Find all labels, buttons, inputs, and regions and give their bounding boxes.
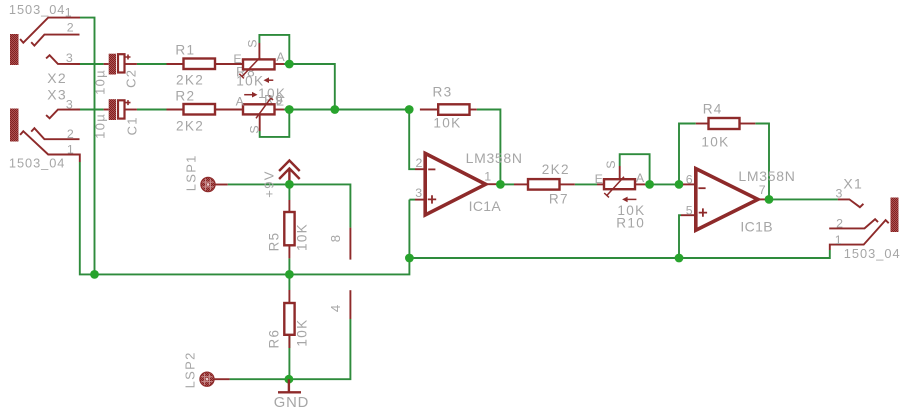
node junction pot R8 output <box>285 60 294 69</box>
svg-text:R2: R2 <box>175 89 195 104</box>
svg-text:1503_04: 1503_04 <box>9 156 65 171</box>
node junction GND <box>285 375 294 384</box>
potentiometer R10 <box>597 183 604 185</box>
wire GND net <box>230 319 351 379</box>
connector X3 jack body <box>10 109 19 142</box>
svg-text:1503_04: 1503_04 <box>9 2 65 17</box>
connector X1 pin 1 <box>830 220 889 250</box>
svg-text:10K: 10K <box>294 319 309 347</box>
svg-text:10µ: 10µ <box>92 113 107 139</box>
svg-text:2K2: 2K2 <box>542 162 570 177</box>
svg-text:2: 2 <box>67 127 75 141</box>
svg-text:LSP1: LSP1 <box>183 154 198 191</box>
potentiometer R8 <box>258 43 260 59</box>
svg-text:5: 5 <box>686 203 694 217</box>
label R10 arrow <box>625 198 636 200</box>
wire net bias rail (X2.1 vertical) <box>80 18 95 275</box>
node junction divider midpoint <box>285 270 294 279</box>
svg-text:S: S <box>245 38 259 48</box>
solder pad LSP1 <box>201 177 215 191</box>
supply symbol +9V arrow <box>279 161 300 185</box>
wire row B input net <box>80 109 104 111</box>
svg-text:IC1A: IC1A <box>469 198 502 214</box>
wire IC1B pin5 to rail <box>679 215 681 258</box>
wire R3 feedback right <box>477 110 501 185</box>
wire pot R9 S loop <box>260 110 290 137</box>
svg-text:2K2: 2K2 <box>176 73 204 88</box>
svg-text:2: 2 <box>836 216 844 230</box>
svg-text:6: 6 <box>686 172 694 186</box>
svg-text:E: E <box>233 52 243 66</box>
svg-text:2K2: 2K2 <box>176 119 204 134</box>
svg-text:10K: 10K <box>433 116 461 131</box>
node junction R10 A/S <box>645 180 654 189</box>
resistor R1 <box>167 63 184 65</box>
svg-text:A: A <box>276 50 286 64</box>
op-amp IC1B <box>683 183 696 185</box>
svg-text:E: E <box>595 172 605 186</box>
svg-text:10K: 10K <box>701 135 729 150</box>
wire +9V supply net <box>228 184 351 227</box>
svg-text:3: 3 <box>66 98 74 112</box>
connector X1 pin 3 <box>838 199 864 207</box>
op-amp IC1A <box>409 199 415 201</box>
connector X1 jack body <box>891 198 899 233</box>
resistor R5 <box>288 200 290 212</box>
wire IC1A output net <box>500 183 514 185</box>
connector X1 pin 2 <box>829 219 878 228</box>
svg-text:3: 3 <box>415 186 423 200</box>
svg-text:LM358N: LM358N <box>738 168 795 184</box>
svg-text:S: S <box>604 159 618 169</box>
node junction IC1A noninverting <box>405 254 414 263</box>
svg-text:4: 4 <box>328 303 343 312</box>
connector X2 jack body <box>10 34 19 65</box>
svg-text:C2: C2 <box>124 69 139 88</box>
IC1 power pin 4 <box>349 290 351 319</box>
connector X2 pin 2 <box>31 35 79 46</box>
capacitor C2 <box>109 54 116 75</box>
connector X3 pin 2 <box>31 128 79 139</box>
svg-text:3: 3 <box>66 51 74 65</box>
svg-text:R4: R4 <box>703 102 723 117</box>
svg-text:IC1B: IC1B <box>740 218 773 234</box>
svg-text:R1: R1 <box>175 42 195 57</box>
node junction IC1B input <box>675 180 684 189</box>
wire R5 divider top <box>288 184 290 200</box>
svg-text:X3: X3 <box>47 87 67 103</box>
wire IC1B output to X1.3 <box>769 198 838 200</box>
svg-text:A: A <box>636 171 646 185</box>
svg-text:+9V: +9V <box>262 170 277 197</box>
svg-text:R5: R5 <box>266 232 281 252</box>
wire pot R10 S loop <box>620 154 650 184</box>
svg-text:R7: R7 <box>549 192 569 207</box>
svg-text:X2: X2 <box>47 70 67 86</box>
resistor R2 <box>167 109 184 111</box>
svg-text:R3: R3 <box>433 85 453 100</box>
potentiometer R9 <box>259 114 261 131</box>
IC1 power pin 8 <box>349 228 351 260</box>
wire net bias rail (right segment) <box>409 250 829 258</box>
node junction X2.1 on rail <box>90 270 99 279</box>
wire pot R8 S loop <box>259 35 289 64</box>
resistor R7 <box>514 183 528 185</box>
connector X3 pin 1 <box>20 131 80 162</box>
svg-text:1: 1 <box>484 170 492 184</box>
svg-text:1: 1 <box>67 142 75 156</box>
svg-text:1503_04: 1503_04 <box>844 246 901 261</box>
svg-text:LM358N: LM358N <box>466 150 523 166</box>
wire R6 to ground <box>288 335 290 379</box>
node junction +9V <box>285 180 294 189</box>
svg-text:3: 3 <box>836 186 844 200</box>
resistor R4 <box>696 123 709 125</box>
svg-text:10K: 10K <box>294 223 309 251</box>
svg-text:7: 7 <box>759 183 767 197</box>
svg-text:A: A <box>236 94 246 108</box>
wire summing node row B <box>284 109 409 111</box>
svg-text:GND: GND <box>274 395 309 411</box>
connector X2 pin 1 <box>20 18 80 43</box>
svg-text:R6: R6 <box>266 329 281 349</box>
wire pot R8 output to node <box>284 64 335 110</box>
svg-text:LSP2: LSP2 <box>182 351 197 388</box>
svg-text:C1: C1 <box>124 116 139 135</box>
svg-text:2: 2 <box>67 21 75 35</box>
node junction IC1B output <box>765 195 774 204</box>
svg-text:S: S <box>248 124 262 134</box>
connector X2 pin 3 <box>46 55 80 64</box>
wire R5 to rail <box>288 258 290 290</box>
svg-text:1: 1 <box>835 233 843 247</box>
wire IC1A inverting input <box>409 110 415 170</box>
node junction R3/IC1A input tap <box>405 105 414 114</box>
svg-text:10K: 10K <box>258 86 286 101</box>
wire pot R10 A to IC1B <box>645 183 683 185</box>
svg-text:1: 1 <box>65 6 73 20</box>
svg-text:10µ: 10µ <box>92 69 107 95</box>
node junction pot R9 output <box>285 105 294 114</box>
wire net bias rail (bottom) <box>80 162 410 274</box>
node junction summing <box>330 105 339 114</box>
svg-text:8: 8 <box>328 234 343 243</box>
node junction IC1A output <box>496 180 505 189</box>
svg-text:R10: R10 <box>616 216 645 231</box>
wire R4 feedback loop <box>679 124 696 185</box>
solder pad LSP2 <box>200 372 214 386</box>
wire row A input net <box>80 63 104 65</box>
capacitor C1 <box>109 99 116 120</box>
node junction IC1B noninverting <box>675 254 684 263</box>
resistor R6 <box>288 290 290 303</box>
svg-text:X1: X1 <box>843 176 863 192</box>
connector X3 pin 3 <box>46 110 80 119</box>
ground symbol <box>278 379 301 392</box>
svg-text:2: 2 <box>416 156 424 170</box>
resistor R3 <box>420 109 438 111</box>
